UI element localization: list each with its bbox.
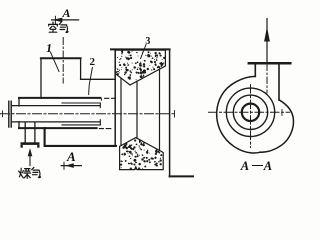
nozzle end caps: [99, 103, 101, 125]
wire horizontal centerline of burner: [1, 113, 177, 115]
label A-A right A: [264, 159, 272, 174]
nozzle upper line: [62, 102, 100, 104]
burner tile top block outline: [115, 50, 165, 85]
A-A horizontal centerline: [209, 111, 290, 113]
gas pipe bottom wall: [11, 121, 100, 123]
label A-A left A: [241, 159, 249, 174]
nozzle lower line: [62, 124, 100, 126]
leader line 3: [141, 45, 146, 59]
label 煤气 (gas): [17, 166, 45, 181]
mixing tube left end caps: [18, 98, 20, 128]
gas flow arrow: [29, 150, 31, 166]
burner tile bottom block outline: [120, 138, 164, 170]
casing top shoulder: [81, 78, 116, 80]
mixing tube top: [19, 97, 100, 99]
label A bottom: [67, 149, 76, 165]
label 1: [45, 41, 53, 56]
section arrow top: [52, 19, 79, 21]
air duct centerline: [62, 38, 64, 84]
A-A inner circle (gas nozzle): [242, 104, 259, 121]
label A-A dash: [252, 165, 263, 167]
label 2: [90, 56, 96, 68]
label A top: [63, 6, 71, 21]
outlet duct flange: [249, 62, 290, 65]
volute casing left sweep: [217, 76, 261, 153]
volute casing right sweep: [260, 100, 293, 152]
section arrow bottom: [61, 165, 81, 167]
outlet duct left wall: [254, 63, 256, 76]
mixing tube bottom hidden dashes: [99, 128, 110, 130]
leader line 2: [89, 68, 93, 95]
gas branch pipe walls: [25, 123, 35, 142]
A-A vertical centerline: [250, 85, 252, 148]
label 3: [145, 36, 150, 47]
outlet duct right wall: [278, 63, 280, 100]
outlet duct centerline: [266, 64, 268, 93]
label 空气 (air): [46, 21, 72, 35]
air duct top: [41, 57, 81, 59]
node center tick right: [174, 111, 176, 117]
wall left face: [114, 50, 116, 147]
stipple dots top and bottom blocks: [115, 50, 165, 170]
tile hole edge left: [120, 79, 122, 145]
gas pipe flange: [9, 101, 11, 127]
A-A right center tick: [281, 109, 283, 115]
mixing tube top hidden dashes: [100, 98, 115, 100]
node center tick left: [2, 111, 4, 117]
A-A outer circle (casing face): [226, 88, 274, 136]
tile joint line right: [159, 69, 161, 150]
brick top edge: [111, 48, 170, 50]
casing left wall: [40, 58, 42, 98]
furnace floor line: [170, 175, 193, 177]
tile hole edge right: [136, 81, 138, 138]
casing bottom corner: [45, 128, 116, 146]
A-A middle circle (mixing tube): [233, 95, 267, 129]
outlet flow arrow: [266, 19, 268, 64]
mixing tube bottom: [19, 127, 97, 129]
casing step right wall: [80, 58, 82, 79]
gas pipe top wall: [11, 105, 100, 107]
leader line 1: [51, 53, 59, 72]
furnace wall right face: [169, 49, 171, 176]
gas branch flange: [21, 142, 40, 147]
